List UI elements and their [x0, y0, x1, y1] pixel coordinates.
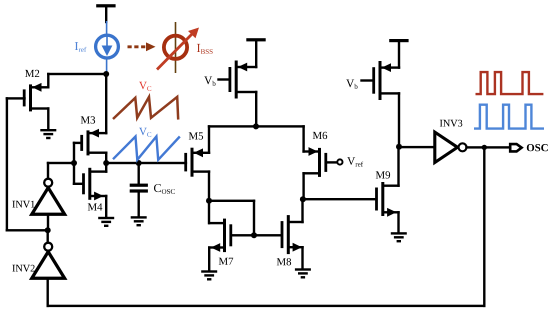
ground	[391, 232, 407, 242]
wire	[47, 73, 107, 75]
wire	[208, 125, 210, 154]
wire	[6, 97, 8, 231]
node F (tail)	[253, 123, 259, 129]
wire	[208, 200, 255, 202]
label M8	[277, 258, 291, 265]
supply VDD (left)	[96, 4, 115, 7]
label M3	[81, 116, 95, 123]
wire	[73, 142, 75, 185]
label IBSS	[197, 44, 213, 54]
wire	[6, 97, 26, 99]
wire	[302, 125, 304, 153]
wire	[398, 41, 400, 69]
wire	[138, 191, 140, 217]
label INV2	[12, 265, 34, 272]
label M4	[88, 203, 103, 210]
transistor M2	[23, 83, 50, 112]
wire	[302, 172, 304, 200]
wire (blue lead of Iref)	[106, 58, 108, 73]
transistor M6	[302, 147, 327, 177]
ground	[295, 268, 311, 278]
waveform OSC square (red)	[476, 72, 544, 94]
wire	[47, 107, 49, 130]
transistor M8	[281, 215, 304, 254]
wire	[230, 234, 282, 236]
transistor U-tail (Vb)	[229, 61, 258, 99]
wire	[47, 277, 49, 307]
wire	[73, 183, 83, 185]
node H (mirror gates)	[251, 232, 257, 238]
label M6	[313, 132, 327, 139]
wire	[6, 229, 49, 231]
wire	[360, 79, 373, 81]
capacitor Cosc	[130, 184, 148, 193]
wire	[105, 162, 107, 173]
wire	[208, 170, 210, 202]
label OSC	[527, 144, 548, 151]
node G (M5/M7 drain)	[206, 198, 212, 204]
node D (Cosc tap)	[136, 160, 142, 166]
transistor M7	[208, 219, 232, 253]
waveform Vc sawtooth (red)	[113, 97, 178, 120]
inverter INV2	[32, 243, 65, 279]
wire	[398, 92, 400, 148]
wire	[397, 146, 399, 187]
wire	[105, 73, 107, 135]
node I (M6/M8 drain)	[300, 196, 306, 202]
wire	[302, 198, 378, 200]
wire	[47, 73, 49, 89]
wire	[326, 161, 338, 163]
wire	[208, 246, 210, 271]
transistor M5	[184, 148, 210, 177]
wire	[105, 195, 107, 218]
node J (INV3 input)	[396, 144, 402, 150]
wire	[105, 6, 107, 23]
wire	[47, 305, 486, 307]
label Vc (blue)	[139, 128, 151, 137]
transistor M9	[375, 182, 400, 217]
wire	[255, 91, 257, 128]
node K (OSC node)	[482, 145, 487, 150]
supply VDD (middle)	[246, 38, 265, 41]
wire	[47, 229, 49, 244]
wire	[208, 200, 210, 225]
transistor M4	[82, 168, 107, 201]
wire	[138, 162, 140, 185]
waveform Vc sawtooth (blue)	[113, 137, 180, 160]
label Vref	[347, 157, 363, 166]
waveform OSC square (blue)	[474, 105, 544, 129]
current source IBSS (variable)	[157, 22, 199, 73]
transistor U-buf (Vb)	[372, 61, 400, 100]
node B (inverter drive)	[71, 160, 77, 166]
inverter INV3	[435, 132, 467, 162]
ground	[201, 270, 217, 280]
wire	[465, 146, 511, 148]
supply VDD (right)	[389, 39, 408, 42]
wire (blue lead of Iref)	[106, 21, 108, 36]
wire	[105, 152, 107, 165]
wire	[255, 40, 257, 68]
ground	[98, 217, 114, 227]
wire	[301, 246, 303, 270]
label Vb (right)	[346, 80, 357, 89]
current source Iref	[96, 35, 119, 58]
label M7	[219, 258, 233, 265]
label M2	[25, 70, 39, 77]
label INV3	[440, 120, 462, 127]
wire	[208, 125, 305, 127]
wire	[47, 213, 49, 231]
inverter INV1	[32, 179, 65, 215]
ground	[131, 216, 147, 226]
node C (Vc)	[103, 160, 109, 166]
wire	[73, 142, 82, 144]
label INV1	[12, 201, 34, 208]
transistor M3	[80, 129, 107, 156]
label Vb (middle)	[204, 77, 215, 86]
dashed arrow (Iref modulates IBSS)	[128, 42, 156, 51]
node A (Iref node)	[103, 71, 109, 77]
node E (INV1 in / INV2 out)	[45, 227, 51, 233]
wire	[398, 146, 436, 148]
terminal Vref	[337, 159, 342, 164]
label Iref	[75, 42, 86, 52]
label Vc (red)	[139, 82, 151, 91]
wire	[397, 211, 399, 233]
wire	[105, 162, 187, 164]
wire	[217, 78, 229, 80]
wire	[47, 162, 49, 180]
label Cosc	[154, 184, 175, 194]
wire	[253, 200, 255, 237]
wire	[483, 146, 485, 307]
wire	[301, 198, 303, 223]
label M9	[376, 171, 390, 178]
ground	[40, 129, 56, 139]
output port OSC	[510, 144, 521, 151]
label M5	[189, 132, 203, 139]
wire	[47, 162, 75, 164]
